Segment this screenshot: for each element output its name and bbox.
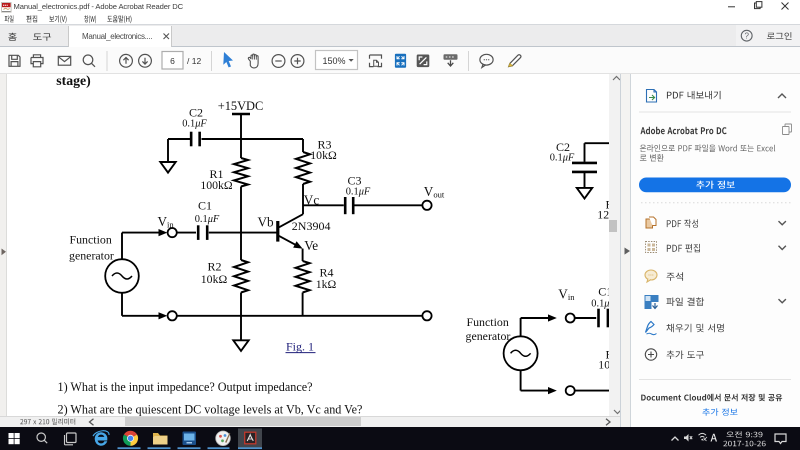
svg-text:Fig. 1: Fig. 1 xyxy=(286,340,314,354)
svg-text:?: ? xyxy=(744,32,749,41)
svg-text:100kΩ: 100kΩ xyxy=(200,178,233,192)
svg-text:0.1μF: 0.1μF xyxy=(182,119,207,130)
svg-text:1) What is the input impedance: 1) What is the input impedance? Output i… xyxy=(58,380,313,394)
svg-text:0.1μF: 0.1μF xyxy=(346,187,371,198)
svg-text:Function: Function xyxy=(467,315,509,329)
svg-text:0.1μF: 0.1μF xyxy=(550,153,575,164)
svg-text:C3: C3 xyxy=(347,174,361,188)
svg-text:C2: C2 xyxy=(189,106,203,120)
svg-text:2N3904: 2N3904 xyxy=(292,219,331,233)
svg-text:0.1μF: 0.1μF xyxy=(195,214,220,225)
svg-text:10kΩ: 10kΩ xyxy=(201,272,228,286)
svg-text:stage): stage) xyxy=(56,73,90,89)
svg-text:/ 12: / 12 xyxy=(187,55,201,65)
svg-text:generator: generator xyxy=(69,248,114,262)
svg-text:1kΩ: 1kΩ xyxy=(316,277,337,291)
svg-text:10kΩ: 10kΩ xyxy=(310,148,337,162)
svg-text:Vc: Vc xyxy=(304,193,320,208)
svg-text:Ve: Ve xyxy=(304,238,318,253)
svg-text:generator: generator xyxy=(466,329,511,343)
svg-text:2) What are the quiescent DC v: 2) What are the quiescent DC voltage lev… xyxy=(58,403,363,417)
svg-text:6: 6 xyxy=(170,55,175,65)
svg-text:Vb: Vb xyxy=(258,215,275,230)
svg-text:+15VDC: +15VDC xyxy=(218,99,264,113)
svg-text:C1: C1 xyxy=(198,199,212,213)
svg-text:150%: 150% xyxy=(323,56,346,66)
svg-text:Function: Function xyxy=(70,233,112,247)
